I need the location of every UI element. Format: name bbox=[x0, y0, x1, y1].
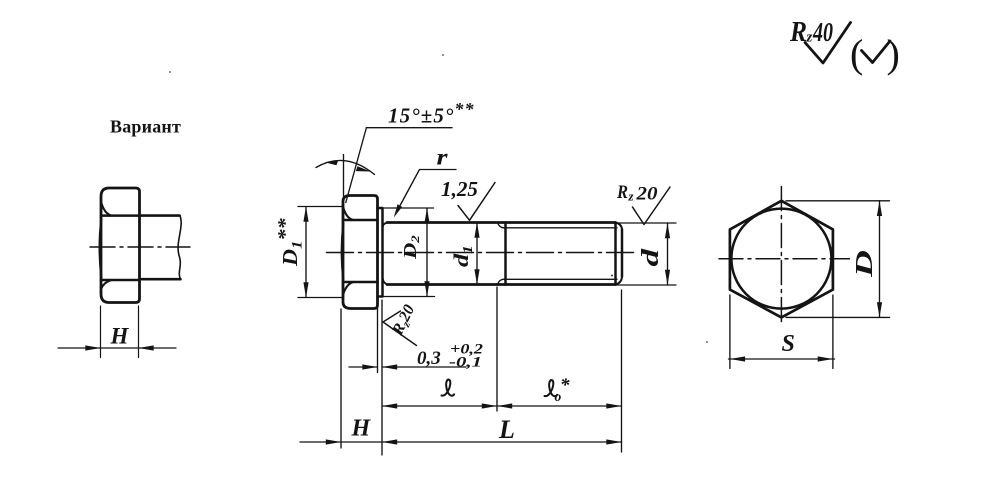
dimension H arrows bbox=[326, 439, 341, 444]
dimension d1 arrows bbox=[474, 223, 479, 238]
thread minor diameter lines bbox=[503, 228, 617, 279]
surface finish Rz40 mark bbox=[805, 23, 851, 64]
svg-text:r: r bbox=[437, 145, 449, 170]
roughness mark Rz20 under head bbox=[383, 311, 417, 346]
shank major diameter lines bbox=[387, 223, 616, 285]
dimension d line bbox=[667, 223, 669, 285]
dimension L arrow bbox=[606, 439, 621, 444]
variant shank break line bbox=[178, 216, 181, 280]
svg-text:d: d bbox=[637, 248, 663, 267]
variant head middle facet arc bbox=[100, 219, 102, 277]
washer thickness extension lines bbox=[378, 300, 383, 455]
svg-text:D2: D2 bbox=[401, 235, 422, 260]
dimension D2 line bbox=[426, 208, 428, 297]
svg-text:z: z bbox=[628, 189, 635, 204]
washer thickness dim lines bbox=[349, 366, 466, 368]
variant dimension H arrows bbox=[85, 345, 100, 350]
speck bbox=[169, 71, 171, 73]
roughness mark 1,25 bbox=[458, 183, 495, 221]
bolt end face bbox=[621, 230, 624, 277]
svg-text:-0,1: -0,1 bbox=[449, 355, 482, 371]
hex head inscribed circle bbox=[731, 209, 831, 309]
leader r bbox=[396, 170, 456, 214]
svg-text:R: R bbox=[616, 182, 628, 203]
variant head chamfer arcs bbox=[101, 202, 112, 290]
washer thickness arrows bbox=[362, 364, 377, 369]
dimension d extension lines bbox=[616, 223, 677, 285]
variant head flat lines bbox=[101, 216, 140, 280]
main head chamfer arcs bbox=[343, 207, 353, 296]
dimension H / L line bbox=[300, 441, 622, 443]
svg-text:H: H bbox=[110, 324, 130, 349]
label lo* bbox=[545, 380, 558, 396]
chamfer angle line 15deg bbox=[346, 128, 367, 203]
svg-text:Вариант: Вариант bbox=[110, 117, 181, 137]
svg-text:D: D bbox=[851, 250, 878, 278]
main head middle facet arc bbox=[342, 224, 344, 280]
angle arc bbox=[316, 160, 375, 174]
main head flat lines bbox=[343, 220, 378, 282]
main head outline bbox=[343, 196, 378, 309]
dimension S line bbox=[729, 358, 835, 360]
dimension lo line bbox=[497, 405, 622, 407]
label D2 bbox=[401, 235, 422, 260]
angle arc arrows bbox=[325, 160, 339, 165]
label Rz20 (under head) rotated bbox=[389, 302, 420, 339]
dimension l line bbox=[382, 405, 497, 407]
label d bbox=[637, 248, 663, 267]
head left extension bbox=[340, 309, 342, 448]
thread start line bbox=[504, 223, 507, 285]
hex view vertical centerline bbox=[780, 187, 782, 327]
dimension D1 line bbox=[305, 207, 307, 298]
svg-text:0,3: 0,3 bbox=[417, 348, 441, 369]
dimension D1 extension lines bbox=[298, 207, 344, 298]
arrow r bbox=[394, 204, 402, 217]
chamfer angle extension (vertical) bbox=[343, 155, 345, 197]
label d1 bbox=[450, 245, 475, 267]
main centerline bbox=[327, 252, 639, 254]
speck bbox=[442, 54, 444, 56]
variant centerline bbox=[90, 246, 190, 248]
check in parens bbox=[862, 41, 891, 63]
svg-text:): ) bbox=[887, 31, 900, 76]
svg-text:20: 20 bbox=[635, 184, 658, 205]
washer face (flange) bbox=[378, 208, 383, 297]
label D1** bbox=[274, 218, 306, 267]
svg-text:Rz20: Rz20 bbox=[389, 302, 420, 339]
svg-text:40: 40 bbox=[812, 17, 833, 47]
svg-text:L: L bbox=[498, 415, 515, 444]
roughness mark Rz20 thread bbox=[633, 187, 671, 225]
label l bbox=[442, 380, 455, 396]
dimension S arrows bbox=[730, 356, 745, 361]
thread runout arcs bbox=[498, 223, 504, 285]
hex view horizontal centerline bbox=[719, 258, 850, 260]
svg-text:1,25: 1,25 bbox=[441, 177, 478, 201]
label D bbox=[851, 250, 878, 278]
svg-text:15°±5°**: 15°±5°** bbox=[388, 99, 475, 128]
dimension D2 extension lines bbox=[378, 208, 435, 297]
bolt end chamfer arcs bbox=[616, 223, 623, 285]
dimension d1 line bbox=[476, 223, 478, 285]
svg-text:S: S bbox=[782, 331, 795, 357]
dimension D1 arrows bbox=[303, 207, 308, 222]
dimension D line bbox=[879, 201, 881, 318]
dimension l / lo extension bbox=[496, 287, 498, 411]
svg-text:(: ( bbox=[850, 31, 863, 76]
hex head view hexagon bbox=[730, 201, 833, 318]
dimension D extension lines bbox=[786, 201, 890, 318]
dimension D2 arrows bbox=[424, 208, 429, 223]
svg-text:*: * bbox=[560, 375, 570, 396]
variant dimension H line bbox=[58, 347, 176, 349]
fillet r under head bbox=[383, 223, 389, 285]
dimension S extension lines bbox=[730, 295, 833, 369]
variant head outline bbox=[101, 188, 140, 303]
speck bbox=[706, 341, 708, 343]
svg-text:d1: d1 bbox=[450, 245, 475, 267]
dimension lo arrows bbox=[497, 403, 512, 408]
svg-text:H: H bbox=[351, 416, 372, 442]
dimension D arrows bbox=[877, 201, 882, 216]
dimension l arrows bbox=[382, 403, 397, 408]
dimension d arrows bbox=[665, 223, 670, 238]
bolt end extension bbox=[621, 290, 623, 452]
variant dimension H extension lines bbox=[101, 306, 139, 358]
svg-text:D1**: D1** bbox=[274, 218, 306, 267]
leader tail for 15deg bbox=[366, 127, 452, 129]
chamfer line at bolt end bbox=[614, 223, 617, 285]
speck bbox=[611, 275, 613, 277]
variant shank bbox=[140, 216, 181, 280]
